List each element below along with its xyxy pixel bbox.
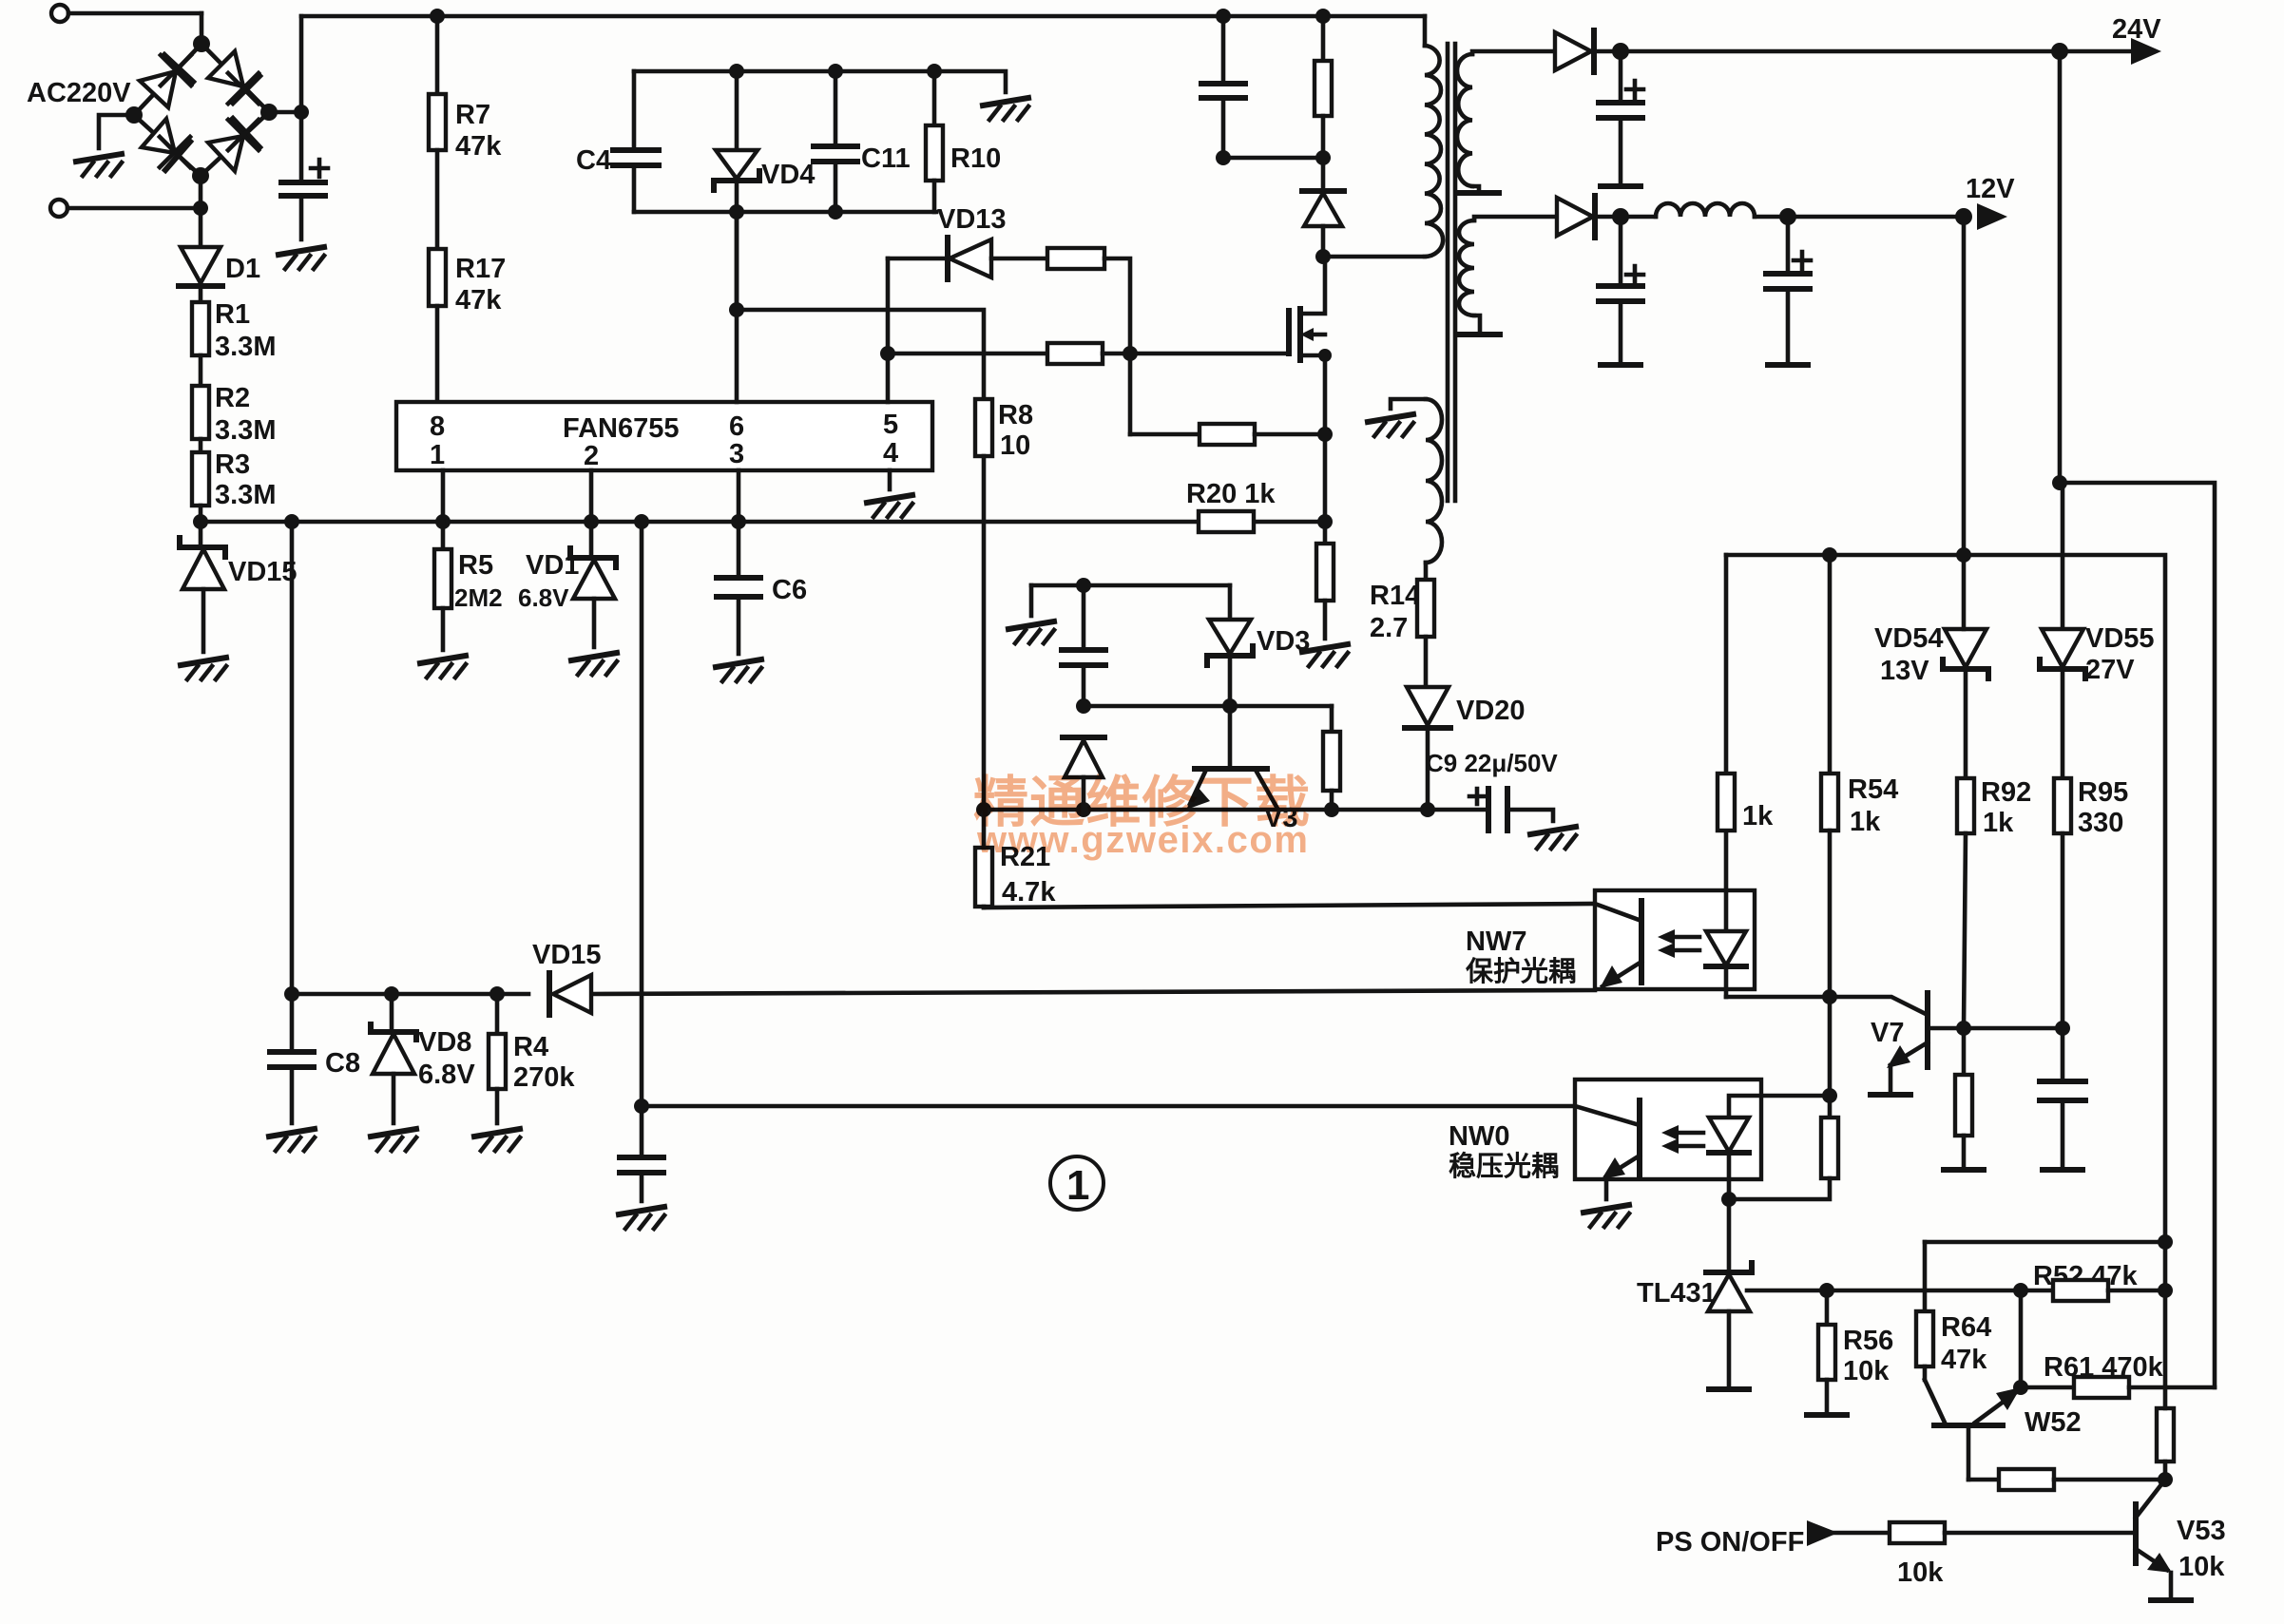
node MOSFET drain / primary bottom	[1315, 249, 1331, 264]
resistor (V7 base pull-down)	[1955, 1028, 1972, 1166]
svg-text:R7: R7	[455, 100, 490, 130]
svg-text:VD20: VD20	[1456, 696, 1526, 726]
wire mid row (Vaux)	[984, 808, 1428, 812]
diode VD15 (mid row)	[532, 940, 602, 1015]
node 24V branch to R61 column	[2052, 475, 2067, 490]
svg-text:27V: 27V	[2085, 655, 2135, 685]
wire 24V rail	[1621, 49, 2137, 54]
wire pin2 stub	[589, 470, 594, 522]
ground (R4)	[474, 1129, 520, 1151]
node R3/VD15	[193, 514, 208, 529]
svg-text:47k: 47k	[1941, 1345, 1987, 1375]
svg-text:C6: C6	[772, 575, 807, 605]
wire 24V branch over to right column	[2060, 483, 2215, 1387]
ground (C9)	[1530, 827, 1576, 849]
node V7 base / pull-down	[1956, 1021, 1971, 1036]
resistor R2 3.3M	[192, 383, 276, 452]
capacitor C6	[717, 522, 807, 654]
transformer core	[1448, 44, 1455, 501]
svg-text:VD4: VD4	[761, 160, 815, 190]
wire NW7 emitter long row (to VD15)	[292, 990, 1595, 994]
node choke out	[1779, 208, 1796, 225]
ground (C6)	[716, 659, 761, 681]
svg-text:PS ON/OFF: PS ON/OFF	[1656, 1527, 1804, 1557]
ground (R5)	[420, 656, 466, 678]
svg-text:VD13: VD13	[937, 204, 1007, 235]
ground (12V pre-filter cap)	[1601, 364, 1641, 366]
svg-text:1k: 1k	[1850, 807, 1881, 837]
node pin1 / R5	[435, 514, 451, 529]
wire pin5 column up	[886, 258, 891, 402]
node snubber resistor top	[1315, 9, 1331, 24]
svg-text:R2: R2	[215, 383, 250, 413]
rectifier diode (24V)	[1555, 30, 1621, 72]
wire C8 column down	[290, 522, 295, 994]
wire bridge right to C2 node	[269, 110, 301, 115]
resistor R17 47k	[429, 249, 506, 402]
wire protection mid row	[1084, 704, 1332, 709]
resistor R61 470k	[2021, 1352, 2215, 1398]
node pin2 / VD1	[584, 514, 599, 529]
diode D1	[179, 247, 260, 302]
resistor (V3 collector load)	[1323, 706, 1340, 810]
zener VD4	[714, 71, 815, 212]
svg-text:R3: R3	[215, 449, 250, 480]
ground (V7 pull-down)	[1944, 1169, 1984, 1171]
svg-text:VD54: VD54	[1874, 623, 1944, 654]
capacitor C11	[814, 71, 911, 212]
ground (protection top)	[1008, 621, 1054, 643]
node NW0 LED cathode / TL431	[1721, 1192, 1737, 1207]
ground (24V cap)	[1601, 185, 1641, 187]
ground (C8)	[269, 1129, 315, 1151]
svg-text:6.8V: 6.8V	[518, 583, 569, 612]
capacitor (feedback column)	[620, 1106, 663, 1201]
svg-text:V53: V53	[2177, 1516, 2226, 1546]
capacitor C9 22u/50V	[1426, 749, 1558, 831]
transformer aux winding	[1391, 399, 1442, 580]
svg-text:稳压光耦: 稳压光耦	[1449, 1150, 1559, 1182]
svg-text:4: 4	[883, 438, 898, 468]
ground (VD1)	[571, 653, 617, 675]
resistor R54 1k	[1821, 555, 1898, 1118]
resistor (damping row)	[1130, 424, 1325, 445]
svg-text:2.7: 2.7	[1370, 613, 1408, 643]
potentiometer W52	[1925, 1380, 2082, 1480]
svg-text:NW0: NW0	[1449, 1121, 1509, 1152]
rectifier diode (12V)	[1557, 196, 1621, 238]
svg-text:12V: 12V	[1966, 174, 2015, 204]
resistor R64 47k	[1916, 1242, 1991, 1380]
svg-text:3.3M: 3.3M	[215, 332, 276, 362]
svg-text:10k: 10k	[1897, 1557, 1944, 1588]
ground (pin4)	[867, 495, 912, 517]
node feedback column / NW0 row	[634, 1099, 649, 1114]
node AC2/D1	[193, 201, 208, 216]
svg-text:330: 330	[2078, 808, 2123, 838]
wire HV node up to top rail corner	[299, 16, 304, 112]
resistor (VD13 row)	[1047, 248, 1130, 353]
node feedback column top	[634, 514, 649, 529]
node VD4 bottom	[729, 204, 744, 220]
NW0 light arrows	[1661, 1125, 1703, 1154]
node gate row / VD13 column	[1123, 346, 1138, 361]
resistor R7 47k	[429, 16, 502, 249]
wire to ground (protection top)	[1029, 585, 1034, 616]
wire VD13 column down to damping row	[1128, 353, 1133, 434]
svg-text:保护光耦: 保护光耦	[1465, 956, 1576, 987]
resistor R21 4.7k	[975, 810, 1056, 908]
node VD4 top	[729, 64, 744, 79]
svg-text:R4: R4	[513, 1032, 548, 1062]
svg-text:R8: R8	[998, 400, 1033, 430]
node collector load / Vaux row	[1324, 802, 1339, 817]
capacitor (protection)	[1062, 585, 1105, 706]
wire bridge left to ground	[99, 115, 134, 148]
node 12V branch	[1955, 208, 1972, 225]
svg-text:2M2: 2M2	[454, 583, 503, 612]
wire 24V column	[2060, 51, 2063, 629]
ground (V53)	[2151, 1599, 2191, 1601]
node R8/R21 column	[976, 802, 991, 817]
node R52 right	[2158, 1283, 2173, 1298]
svg-text:R5: R5	[458, 550, 493, 581]
svg-text:R64: R64	[1941, 1312, 1991, 1343]
svg-text:4.7k: 4.7k	[1002, 877, 1056, 908]
svg-text:3: 3	[729, 439, 744, 469]
NW7 phototransistor	[1595, 901, 1641, 988]
node startup rail / C8 column	[284, 514, 299, 529]
zener VD55 27V	[2040, 623, 2155, 778]
resistor (NW0 LED series)	[1729, 1118, 1838, 1199]
resistor R14 2.7	[1417, 580, 1434, 687]
resistor R8 10	[975, 399, 1033, 810]
resistor R1 3.3M	[192, 299, 276, 386]
ground (TL431)	[1709, 1388, 1749, 1390]
node R20 / MOSFET source column	[1317, 514, 1333, 529]
resistor (V53 collector)	[2157, 1290, 2174, 1480]
wire: top rail	[301, 14, 1425, 19]
node R10 top	[927, 64, 942, 79]
svg-text:3.3M: 3.3M	[215, 415, 276, 446]
svg-text:47k: 47k	[455, 285, 502, 315]
terminal T2	[50, 200, 201, 217]
node VD3 / mid row	[1222, 698, 1238, 714]
clamp diode (snubber)	[1302, 158, 1344, 257]
svg-text:6: 6	[729, 411, 744, 442]
svg-text:1: 1	[1066, 1162, 1089, 1209]
svg-text:R14: R14	[1370, 581, 1420, 611]
node W52 wiper / R61	[2013, 1380, 2028, 1395]
ground (bridge left)	[76, 154, 122, 176]
svg-text:R54: R54	[1848, 774, 1898, 805]
capacitor (12V post-filter, polarized)	[1766, 217, 1811, 363]
node damping row / MOSFET source	[1317, 427, 1333, 442]
svg-text:VD3: VD3	[1257, 626, 1310, 657]
capacitor C8	[270, 994, 360, 1123]
ground (C4 rail)	[983, 98, 1028, 120]
resistor R95 330	[2054, 777, 2128, 1028]
watermark	[973, 772, 1310, 861]
node row A / R54 column	[1822, 989, 1837, 1004]
svg-text:R95: R95	[2078, 777, 2128, 808]
ground (aux winding top)	[1368, 414, 1413, 436]
svg-text:10k: 10k	[1843, 1356, 1890, 1386]
wire MOSFET source to sense resistor	[1323, 434, 1328, 544]
wire pin3 stub	[737, 470, 741, 522]
wire R64 top row	[1925, 1240, 2165, 1245]
12V arrow	[1977, 203, 2007, 230]
svg-text:C8: C8	[325, 1048, 360, 1079]
ground (VD8)	[371, 1129, 416, 1151]
wire pin1 stub	[441, 470, 446, 522]
wire NW0 collector long row	[642, 1104, 1575, 1109]
bridge rectifier B1	[125, 35, 278, 184]
svg-text:R1: R1	[215, 299, 250, 330]
node diode bottom / Vaux row	[1076, 802, 1091, 817]
wire aux supply rail (to 1k/R54/VD54)	[1726, 555, 2165, 1242]
svg-text:3.3M: 3.3M	[215, 480, 276, 510]
svg-text:VD1: VD1	[526, 550, 579, 581]
svg-text:2: 2	[584, 441, 599, 471]
NW7 light arrows	[1658, 929, 1699, 958]
protection block: top row	[1031, 583, 1230, 588]
node VD8	[384, 986, 399, 1002]
C4 block bottom rail	[634, 210, 936, 215]
wire divider right column	[2163, 1242, 2168, 1290]
svg-text:5: 5	[883, 410, 898, 440]
capacitor (V7 base)	[2040, 1028, 2085, 1166]
zener VD15 (left)	[180, 522, 297, 652]
resistor R52 47k	[2033, 1261, 2165, 1301]
node R52 row / divider column	[2013, 1283, 2028, 1298]
transformer secondary winding (12V)	[1459, 217, 1557, 334]
resistor R56 10k	[1818, 1290, 1893, 1411]
node 12V / VD54	[1956, 547, 1971, 563]
gate drive row resistor	[888, 343, 1289, 364]
svg-text:8: 8	[430, 411, 445, 442]
node V53 collector	[2158, 1472, 2173, 1487]
resistor R5 2M2	[434, 522, 503, 650]
node snubber tie	[1216, 150, 1231, 165]
capacitor (12V pre-filter, polarized)	[1599, 217, 1643, 363]
wire divider column	[2019, 1290, 2024, 1387]
node 12V diode out	[1612, 208, 1629, 225]
svg-text:D1: D1	[225, 254, 260, 284]
capacitor C2 (bulk, polarized)	[281, 112, 328, 239]
svg-text:TL431: TL431	[1637, 1278, 1717, 1309]
svg-text:VD15: VD15	[228, 557, 297, 587]
ground (sense resistor)	[1302, 644, 1348, 666]
svg-text:1: 1	[430, 440, 445, 470]
wire Vcc branch row to R8 column	[737, 310, 984, 399]
wire pin6 column up	[735, 212, 739, 402]
node C8	[284, 986, 299, 1002]
capacitor (24V filter, polarized)	[1599, 51, 1643, 184]
node 24V branch	[2051, 43, 2068, 60]
C4 block top rail	[634, 71, 1006, 92]
wire pin4 stub	[888, 470, 892, 489]
svg-text:R20 1k: R20 1k	[1186, 479, 1276, 509]
node protection mid row left	[1076, 698, 1091, 714]
node R54 / NW0 LED row	[1822, 1088, 1837, 1103]
node pin5 / gate drive row	[880, 346, 895, 361]
node C11 top	[828, 64, 843, 79]
svg-text:47k: 47k	[455, 131, 502, 162]
svg-text:R56: R56	[1843, 1326, 1893, 1356]
TL431	[1637, 1263, 2053, 1385]
svg-text:270k: 270k	[513, 1062, 575, 1093]
svg-text:FAN6755: FAN6755	[563, 413, 680, 444]
NW0 phototransistor	[1575, 1100, 1640, 1199]
transformer secondary winding (24V)	[1457, 51, 1555, 193]
transistor V3	[1186, 706, 1297, 833]
zener VD1 6.8V	[518, 522, 616, 647]
diode (protection, to Vaux row)	[1063, 737, 1104, 810]
svg-text:VD15: VD15	[532, 940, 602, 970]
svg-text:W52: W52	[2025, 1407, 2082, 1438]
ground (VD15 left)	[181, 658, 226, 679]
svg-text:VD8: VD8	[418, 1027, 471, 1058]
filter choke L1	[1621, 203, 1964, 217]
svg-text:C9 22μ/50V: C9 22μ/50V	[1426, 749, 1558, 777]
svg-text:V7: V7	[1871, 1018, 1904, 1048]
node V7 base row right	[2055, 1021, 2070, 1036]
svg-text:R17: R17	[455, 254, 506, 284]
figure number 1	[1050, 1156, 1104, 1210]
svg-text:R92: R92	[1981, 777, 2031, 808]
ground (V7 base cap)	[2043, 1169, 2082, 1171]
resistor 10k (PS ON/OFF)	[1890, 1522, 2136, 1588]
svg-text:AC220V: AC220V	[27, 78, 131, 108]
node: rectified HV	[294, 105, 309, 120]
24V arrow	[2131, 38, 2161, 65]
node snubber cap top	[1216, 9, 1231, 24]
resistor R3 3.3M	[192, 449, 276, 522]
resistor (current sense)	[1316, 544, 1334, 639]
NW0 LED	[1709, 1096, 1830, 1272]
node cap (protection)	[1076, 578, 1091, 593]
svg-text:C11: C11	[861, 143, 911, 174]
transistor V53	[2136, 1480, 2226, 1596]
ground (V7 emitter)	[1871, 1094, 1910, 1096]
wire: long startup rail	[201, 520, 1325, 525]
node R4	[489, 986, 505, 1002]
svg-text:1k: 1k	[1742, 801, 1774, 831]
node TL431 ref / R56	[1819, 1283, 1834, 1298]
svg-text:www.gzweix.com: www.gzweix.com	[976, 819, 1308, 861]
resistor 1k (NW7 LED feed)	[1718, 555, 1774, 831]
svg-text:NW7: NW7	[1466, 927, 1526, 957]
node C11 bottom	[828, 204, 843, 220]
svg-text:10k: 10k	[2178, 1552, 2225, 1582]
wire snubber bottom tie	[1223, 156, 1323, 161]
resistor R92 1k	[1957, 777, 2031, 1028]
node pin6 / R8 branch	[729, 302, 744, 317]
resistor R4 270k	[489, 994, 575, 1123]
svg-text:C4: C4	[576, 145, 611, 176]
terminal T1	[51, 5, 202, 22]
ground (feedback cap)	[619, 1207, 664, 1229]
node R64 row right	[2158, 1234, 2173, 1250]
svg-text:6.8V: 6.8V	[418, 1060, 475, 1090]
svg-text:VD55: VD55	[2085, 623, 2155, 654]
node 24V cap	[1612, 43, 1629, 60]
MOSFET V1	[1289, 257, 1332, 434]
node VD20 / C9 row	[1420, 802, 1435, 817]
resistor R10	[926, 71, 1001, 212]
transformer T1 primary winding	[1423, 16, 1428, 46]
ground (R56)	[1807, 1414, 1847, 1416]
NW7 LED	[1706, 831, 1746, 997]
ground (NW0 emitter)	[1583, 1205, 1629, 1227]
zener VD8 6.8V	[371, 994, 475, 1123]
resistor (W52 bottom row)	[1968, 1469, 2165, 1490]
wire T1 to bridge top	[200, 13, 204, 44]
svg-text:10: 10	[1000, 430, 1030, 461]
resistor R20 1k (in startup rail)	[1186, 479, 1276, 532]
ground (12V post-filter cap)	[1768, 364, 1808, 366]
PS ON/OFF input	[1656, 1520, 1890, 1557]
wire bridge bottom to D1	[199, 176, 203, 246]
node pin3 / C6	[731, 514, 746, 529]
svg-text:R10: R10	[950, 143, 1001, 174]
snubber capacitor	[1201, 16, 1245, 158]
transistor V7	[1871, 993, 2063, 1091]
wire R21 to NW7 collector	[984, 904, 1595, 908]
ground (bulk cap)	[278, 247, 324, 269]
optocoupler NW0 box	[1575, 1079, 1761, 1179]
svg-text:24V: 24V	[2112, 14, 2161, 45]
node R54 top	[1822, 547, 1837, 563]
optocoupler NW7 box	[1595, 890, 1755, 989]
snubber resistor	[1315, 16, 1332, 158]
wire primary bottom	[1323, 255, 1425, 259]
wire VD4 node down to pin6 branch	[735, 212, 739, 310]
wire NW7 LED cathode to V7 collector	[1726, 997, 1928, 1015]
svg-text:13V: 13V	[1880, 656, 1929, 686]
wire 12V branch down	[1962, 217, 1967, 555]
zener VD3	[1207, 585, 1310, 706]
diode VD13 row	[888, 204, 1047, 279]
node R7 top	[430, 9, 445, 24]
diode VD20	[1405, 687, 1526, 810]
zener VD54 13V	[1874, 555, 1988, 778]
capacitor C4	[576, 71, 659, 212]
svg-text:1k: 1k	[1983, 808, 2014, 838]
wire pin2 node to vertical feedback column	[640, 522, 644, 1106]
IC U1 FAN6755	[396, 402, 932, 471]
